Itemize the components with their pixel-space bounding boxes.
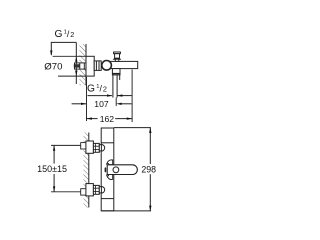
body column	[101, 128, 114, 211]
arrow O70 up	[75, 57, 77, 62]
wall face line (front view)	[88, 133, 90, 208]
wall (side view) hatched section	[80, 44, 87, 85]
dimension line O70 (vertical, shared leg)	[75, 42, 77, 84]
body bar (side view)	[108, 61, 138, 68]
top inlet ring	[99, 145, 101, 151]
dimension 150+-15 line	[53, 145, 55, 163]
hex connector (side view)	[94, 61, 101, 71]
top inlet: wall stub	[81, 143, 87, 149]
svg-text:298: 298	[141, 164, 156, 174]
handle dark dash	[105, 167, 107, 172]
extension line 298 top	[114, 127, 151, 129]
wall (front view) hatched section	[84, 133, 89, 208]
svg-text:107: 107	[94, 99, 109, 109]
column division top	[101, 142, 114, 144]
thermostat handle circle (side view)	[102, 61, 112, 71]
extension line 150 bottom	[51, 191, 81, 193]
dimension 162 line	[87, 118, 98, 120]
escutcheon (side view)	[86, 56, 94, 76]
arrow G1/2 left leg down	[50, 51, 52, 56]
extension line 298 bottom	[101, 210, 151, 212]
handle circle	[113, 167, 119, 173]
extension line from wall face down	[86, 77, 88, 121]
extension line pipe centre	[115, 98, 117, 106]
in-wall fitting stem (dark)	[74, 64, 80, 67]
O70 extension line bottom	[58, 75, 86, 77]
column division bottom	[101, 198, 114, 200]
handle lower tab	[107, 175, 113, 180]
in-wall fitting nut	[80, 63, 86, 69]
dimension G1/2 (shower outlet) line	[88, 95, 112, 97]
dimension 107 line	[72, 103, 86, 105]
handle upper tab	[107, 160, 113, 165]
bottom inlet ring	[99, 187, 101, 193]
O70 extension line top	[53, 55, 86, 57]
bottom inlet escutcheon	[86, 184, 94, 196]
svg-text:162: 162	[100, 114, 115, 124]
arrow O70 down	[75, 71, 77, 76]
shower outlet connector below body	[112, 69, 120, 75]
extension line 150 top	[51, 144, 81, 146]
svg-text:150±15: 150±15	[37, 164, 67, 174]
label G1/2 (top) bracket	[51, 42, 76, 55]
wall face line	[85, 44, 87, 85]
extension line spout tip	[131, 70, 133, 123]
handle capsule	[107, 165, 137, 175]
bottom inlet: wall stub	[81, 189, 87, 195]
bottom inlet boss on column	[101, 187, 104, 194]
svg-text:Ø70: Ø70	[44, 61, 62, 72]
dimension 298 line	[149, 128, 151, 164]
shower outlet pipe	[112, 75, 114, 98]
top inlet boss on column	[101, 145, 104, 152]
top inlet escutcheon	[86, 141, 94, 153]
diverter knob on top of body	[114, 52, 121, 54]
bottom inlet hex nut	[93, 185, 99, 194]
top inlet hex nut	[93, 143, 99, 152]
